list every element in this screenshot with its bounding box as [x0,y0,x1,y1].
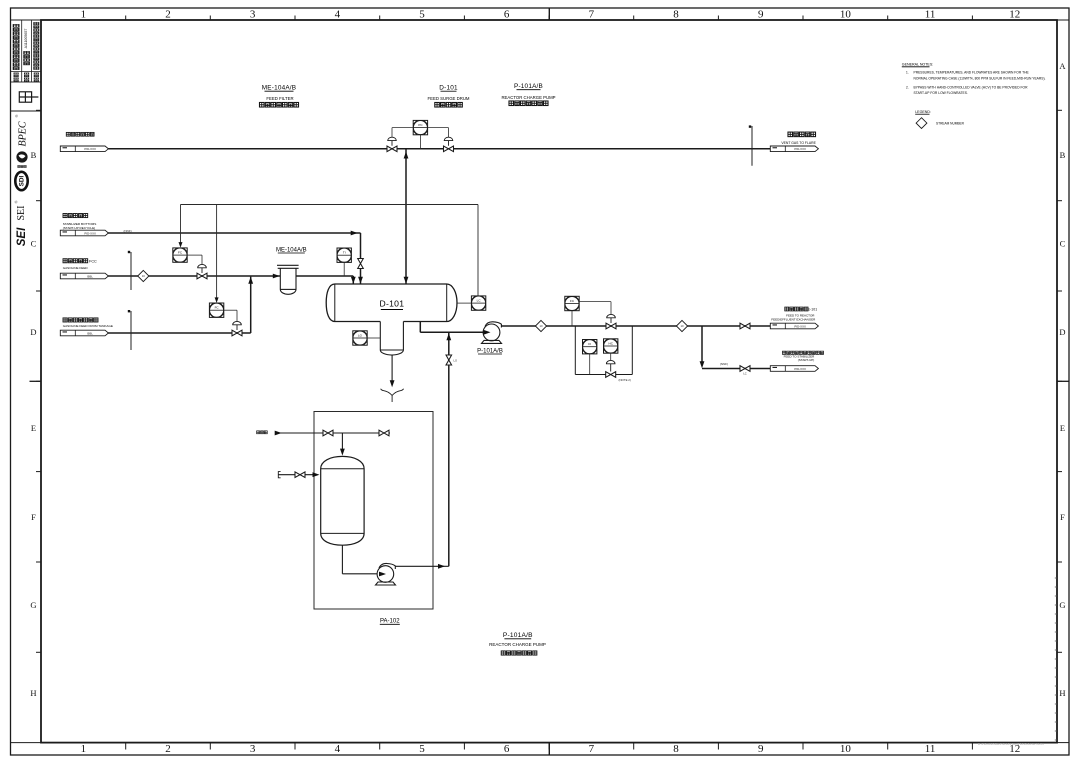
svg-text:(START-UP): (START-UP) [798,358,815,362]
svg-text:PID-XXX: PID-XXX [794,147,806,151]
text nitrogen label [257,431,260,434]
arrow up joining FCC feed [248,277,253,284]
outgoing flag vent to flare [770,146,818,152]
text chinese feed gasoline from [63,259,67,263]
svg-text:PID-XXX: PID-XXX [84,231,96,235]
svg-text:C: C [31,239,37,249]
instrument HC bypass [604,339,618,353]
svg-text:STREAM NUMBER: STREAM NUMBER [936,121,965,125]
arrow into FC2 [215,297,219,303]
nitrogen drop into vessel [341,433,343,453]
svg-text:9: 9 [758,9,764,21]
nitrogen line [276,432,391,434]
grid column ticks [125,16,127,21]
bypass hand control valve [606,360,615,363]
arrow into PA pump [379,572,386,577]
text chinese feed gasoline from tankage [63,318,67,322]
svg-text:®: ® [14,200,19,203]
valve on side line [295,472,305,478]
incoming flag gasoline from tankage [60,330,108,336]
svg-text:PID-XXX: PID-XXX [794,324,806,328]
arrow flow right before corner [351,231,358,236]
text chinese start-up recycle oil [63,214,67,218]
wire D-101 bottom outlet [419,322,421,333]
svg-text:SEI: SEI [16,206,27,221]
valve on start-up line [358,259,364,269]
svg-text:E-101: E-101 [808,307,817,311]
svg-text:10: 10 [680,324,684,328]
outgoing flag to stabilizer [770,366,818,372]
control valve FV on tankage feed [224,309,237,311]
text title pump chinese [509,101,514,106]
svg-text:2: 2 [165,9,171,21]
svg-text:BBL: BBL [87,331,93,335]
svg-text:TI: TI [343,251,346,255]
svg-text:G: G [1059,600,1065,610]
svg-text:®: ® [14,114,19,117]
svg-text:PID-XXX: PID-XXX [794,367,806,371]
certificate table [11,20,42,82]
PA-102 package boundary [314,412,433,610]
wire gasoline feed from FCC [108,275,281,277]
svg-text:3: 3 [250,9,256,21]
svg-text:LO: LO [454,359,457,363]
svg-text:11: 11 [925,9,936,21]
svg-text:A: A [1059,61,1066,71]
arrow down into PA vessel [340,449,345,456]
svg-text:7: 7 [589,743,595,755]
svg-text:3: 3 [250,743,256,755]
text cert col1 company name [13,24,19,27]
svg-text:4: 4 [335,743,341,755]
svg-text:10: 10 [840,9,852,21]
control valve FV on FCC feed [187,254,202,256]
stamp symbol [19,92,38,102]
svg-text:G: G [30,600,36,610]
svg-text:BBL: BBL [87,274,93,278]
control valve FV discharge [579,301,611,303]
svg-text:4: 4 [335,9,341,21]
PA-102 vessel [321,456,364,545]
instrument TI [337,248,351,262]
battery limit mark feed FCC [130,252,132,290]
PA vessel bottom outlet [341,545,343,574]
filter ME-104A/B [277,265,299,294]
incoming flag start-up recycle [60,230,108,236]
svg-text:REACTOR CHARGE PUMP: REACTOR CHARGE PUMP [489,642,546,647]
svg-text:STABILIZER BOTTOMS: STABILIZER BOTTOMS [63,222,97,226]
svg-text:SDI: SDI [19,175,26,186]
control valve PV-B on flare header [428,127,449,129]
svg-text:2: 2 [165,743,171,755]
stream diamond discharge 2 [676,320,687,331]
svg-text:10: 10 [539,324,543,328]
bypass loop [574,326,576,375]
instrument FC discharge [565,296,579,310]
text title filter chinese [259,102,264,107]
svg-text:LG: LG [358,333,363,337]
svg-text:E: E [31,423,36,433]
svg-text:START-UP FOR LOW FLOWRATES.: START-UP FOR LOW FLOWRATES. [914,91,968,95]
instrument LC [471,296,485,310]
svg-text:LEGEND:: LEGEND: [915,110,931,114]
wire feed corner into D-101 [352,276,354,284]
svg-text:SEI: SEI [16,227,28,246]
text cert col3 ministry [34,22,39,24]
FC stem [571,311,573,326]
svg-text:D-101: D-101 [439,85,458,92]
arrow down into D-101 [404,277,409,284]
instrument LG boot [353,331,367,345]
svg-text:6: 6 [504,9,510,21]
grid row ticks [36,109,41,111]
wire vapor line D-101 to flare header [405,149,407,284]
top band line extension [11,19,42,21]
svg-text:BYPASS WITH HAND-CONTROLLED VA: BYPASS WITH HAND-CONTROLLED VALVE (HCV) … [914,86,1029,90]
arrow into PA vessel side [313,472,320,477]
right edge ruler ticks [1055,577,1057,579]
sheet center marks [548,8,550,20]
svg-text:FCC: FCC [89,260,97,264]
wire PA-102 return riser [448,333,450,566]
svg-text:P-101A/B: P-101A/B [477,348,503,354]
svg-text:F: F [31,512,36,522]
svg-text:FEED/EFFLUENT EXCHANGER: FEED/EFFLUENT EXCHANGER [771,317,816,321]
svg-text:GASOLINE FEED: GASOLINE FEED [63,266,89,270]
svg-text:1.: 1. [906,71,909,75]
svg-text:GASOLINE FEED FROM TANKAGE: GASOLINE FEED FROM TANKAGE [63,324,113,328]
incoming flag from stabilizer ovhd [60,146,108,152]
stream diamond discharge 1 [535,320,546,331]
svg-text:H: H [1059,688,1065,698]
wire PA pump discharge [395,565,449,567]
boot drain line [391,355,393,381]
svg-text:LC: LC [743,372,746,376]
instrument PC vent [413,120,427,134]
valve nitrogen 2 [379,430,389,436]
arrow nitrogen in [275,431,282,436]
svg-text:(NOTE 2): (NOTE 2) [619,378,631,382]
battery limit mark flare [751,126,753,166]
wire start-up drop to D-101 [360,233,362,258]
svg-text:NORMAL OPERATING CASE (110WT%,: NORMAL OPERATING CASE (110WT%, 800 PPM S… [914,77,1046,81]
arrow into FC1 [179,242,183,248]
wire pump discharge [501,325,770,327]
text chinese from stabilizer top [66,132,70,136]
HC stem [610,353,612,360]
svg-text:(NNF): (NNF) [124,229,132,233]
svg-text:C: C [1060,239,1066,249]
incoming flag gasoline from FCC [60,273,108,279]
wire tankage feed riser [250,277,252,333]
text title drum chinese [435,102,440,107]
svg-text:(START-UP RECYCLE): (START-UP RECYCLE) [63,226,95,230]
arrow down to drain [390,380,395,387]
svg-text:6: 6 [504,743,510,755]
side line into PA vessel [279,474,317,476]
svg-text:D: D [30,327,36,337]
svg-text:ME-104A/B: ME-104A/B [276,247,307,253]
instrument FI bypass [583,340,597,354]
valve on PA-102 return [446,355,452,365]
text chinese vent gas to flare [788,132,793,137]
text chinese gasoline feed to E-101 [785,307,789,311]
arrow down into D-101 nozzle2 [358,277,363,284]
svg-text:D:\PID\S-ZORB-PID-101.DWG 201: D:\PID\S-ZORB-PID-101.DWG 2013-06-08 10:… [978,742,1044,746]
SDI logo [15,172,27,190]
svg-text:D-101: D-101 [379,298,404,308]
svg-text:F: F [1060,512,1065,522]
svg-text:H: H [30,688,36,698]
stream number diamond feed [138,270,149,281]
svg-text:10: 10 [142,274,146,278]
svg-text:B: B [1060,150,1066,160]
svg-text:5: 5 [419,743,425,755]
arrow down at branch [700,361,705,368]
svg-text:PRESSURES, TEMPERATURES, AND F: PRESSURES, TEMPERATURES, AND FLOWRATES A… [914,71,1030,75]
svg-text:E: E [1060,423,1065,433]
svg-text:D: D [1059,327,1065,337]
arrow into filter [273,274,280,279]
arrow into pump suction [484,330,491,335]
arrow on PA discharge [438,564,445,569]
arrow down into D-101 nozzle1 [351,277,356,284]
svg-text:7: 7 [589,9,595,21]
vessel D-101 [326,284,457,322]
svg-text:BPEC: BPEC [18,121,29,146]
signal line from LC to controllers [181,204,479,206]
wire start-up recycle line [108,232,361,234]
instrument FC feed tankage [209,303,223,317]
svg-text:2.: 2. [906,86,909,90]
wire flare header [108,148,771,150]
arrow up into pump suction line [446,333,451,340]
svg-text:PA-102: PA-102 [380,619,400,625]
svg-text:5: 5 [419,9,425,21]
svg-text:A111005657: A111005657 [24,29,28,49]
drain funnel [381,389,404,396]
svg-text:P-101A/B: P-101A/B [514,83,543,90]
svg-text:1: 1 [81,9,87,21]
text bottom title chinese [501,651,505,655]
legend stream number diamond [916,118,927,129]
svg-text:11: 11 [925,743,936,755]
wire gasoline feed from tankage [108,332,251,334]
outgoing flag feed to exchanger [770,323,818,329]
control valve PV-A on flare header [392,127,413,129]
LG tap [367,337,380,339]
svg-text:FEED SURGE DRUM: FEED SURGE DRUM [427,96,469,101]
svg-text:9: 9 [758,743,764,755]
svg-text:FI: FI [588,342,591,346]
svg-text:10: 10 [840,743,852,755]
svg-text:B: B [31,150,37,160]
text chinese start-up feed to stabilizer [782,351,785,354]
svg-text:P-101A/B: P-101A/B [503,632,533,639]
gate valve feed to exchanger [740,323,750,329]
svg-text:1: 1 [81,743,87,755]
svg-text:8: 8 [673,743,679,755]
svg-text:(NNF): (NNF) [720,362,728,366]
svg-text:FEED FILTER: FEED FILTER [266,96,293,101]
arrow up into flare header [404,152,409,159]
wire branch to stabilizer [701,326,703,365]
TI stem [343,262,345,276]
gate valve to stabilizer [740,366,750,372]
svg-text:GENERAL NOTES:: GENERAL NOTES: [902,63,933,67]
pump PA-102 [376,563,396,585]
valve nitrogen 1 [323,430,333,436]
svg-text:ME-104A/B: ME-104A/B [262,85,296,92]
svg-text:12: 12 [1009,9,1020,21]
BPEC emblem [16,151,27,162]
svg-text:VENT GAS TO FLARE: VENT GAS TO FLARE [781,141,816,145]
svg-text:8: 8 [673,9,679,21]
svg-text:REACTOR CHARGE PUMP: REACTOR CHARGE PUMP [501,95,555,100]
PC stem [419,135,421,149]
pump P-101A/B [482,322,502,344]
svg-text:PID-XXX: PID-XXX [84,147,96,151]
text cert row2 labels [14,73,18,75]
D-101 boot [380,322,403,356]
instrument FC feed FCC [173,248,187,262]
battery limit mark feed tankage [130,311,132,350]
